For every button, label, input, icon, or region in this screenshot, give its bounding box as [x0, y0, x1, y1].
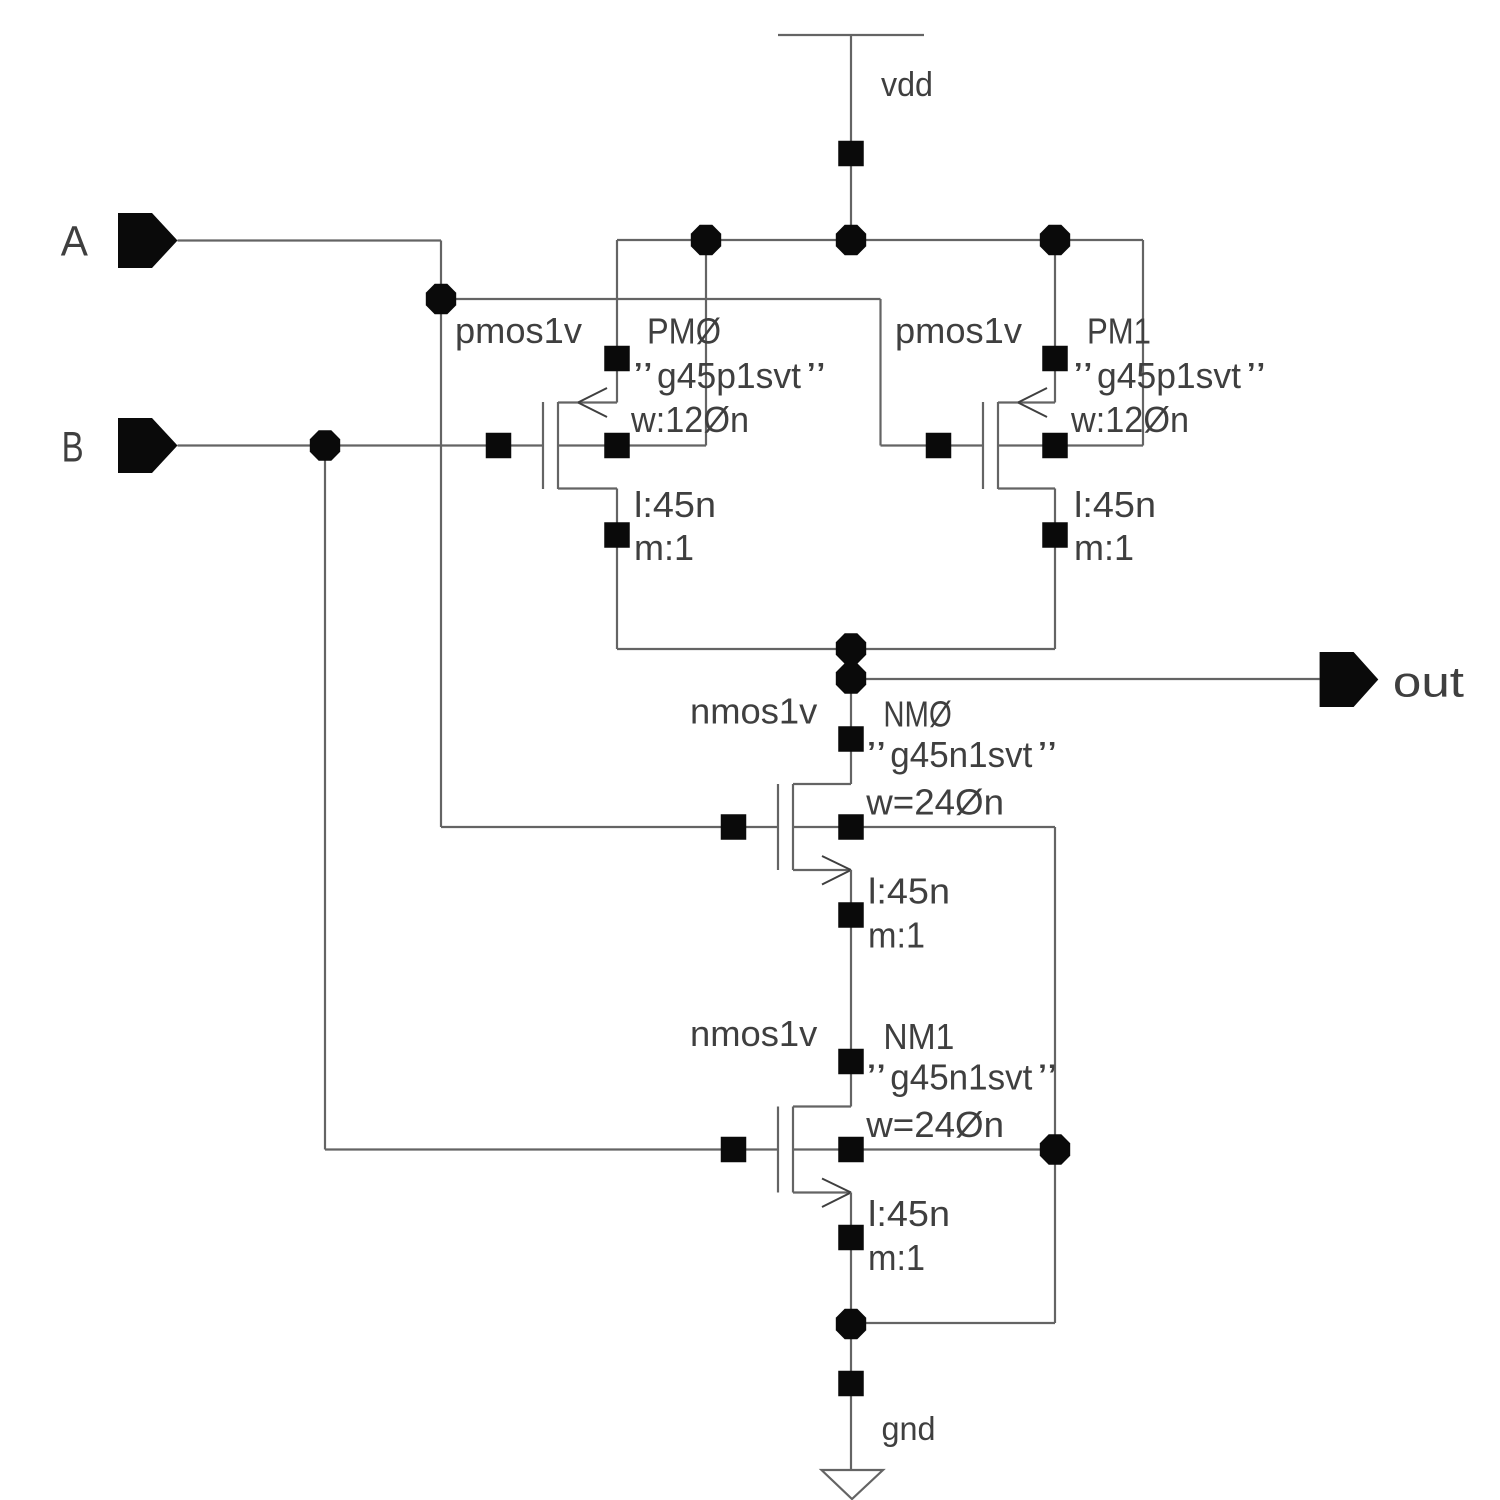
pmos transistor PM1 symbol [983, 402, 1055, 489]
wire bulk return bottom [851, 1322, 1055, 1324]
svg-text:’’: ’’ [806, 355, 826, 396]
PM1 bulk pin square [1042, 433, 1068, 459]
input port A [118, 213, 178, 268]
NM1 source pin square [838, 1225, 864, 1251]
PM0 instance name label [647, 311, 721, 352]
svg-text:m:1: m:1 [868, 915, 925, 956]
nmos transistor NM1 symbol [778, 1107, 851, 1193]
NM1 drain pin square [838, 1049, 864, 1075]
svg-text:l:45n: l:45n [634, 484, 716, 525]
svg-text:l:45n: l:45n [868, 1193, 950, 1234]
wire NM1 source down to gnd node [850, 1193, 852, 1325]
PM0 drain pin square [604, 522, 630, 548]
PM0 multiplier label [634, 527, 694, 568]
svg-text:m:1: m:1 [1074, 527, 1134, 568]
NM1 bulk pin square [838, 1137, 864, 1163]
NM0 source arrow [822, 856, 851, 885]
PM0 length label [634, 484, 716, 525]
PM1 cell label g45p1svt [1073, 355, 1266, 396]
svg-text:vdd: vdd [881, 66, 933, 104]
svg-text:’’: ’’ [866, 734, 886, 775]
PM1 width label [1070, 399, 1189, 440]
NM0 model label nmos1v [690, 691, 817, 732]
PM1 multiplier label [1074, 527, 1134, 568]
input port B [118, 418, 178, 473]
svg-text:PMØ: PMØ [647, 311, 721, 352]
PM1 source pin square [1042, 346, 1068, 372]
wire gnd stem [850, 1324, 852, 1470]
PM1 drain wire down [1054, 489, 1056, 650]
NM0 gate pin square [721, 814, 747, 840]
junction dot out wire [836, 663, 866, 693]
PM1 model label pmos1v [895, 310, 1022, 351]
NM0 length label [868, 871, 950, 912]
port label A [61, 218, 88, 266]
PM0 source wire to vdd rail [616, 240, 618, 403]
PM1 length label [1074, 484, 1156, 525]
svg-text:g45n1svt: g45n1svt [890, 734, 1032, 775]
svg-text:’’: ’’ [866, 1057, 886, 1098]
junction dot drain rail to output [836, 633, 866, 663]
NM0 instance name label [883, 694, 951, 735]
pmos transistor PM0 symbol [543, 402, 617, 489]
svg-text:g45p1svt: g45p1svt [1097, 355, 1241, 396]
wire net A into NM0 gate [441, 826, 778, 828]
NM0 source pin square [838, 902, 864, 928]
output port out [1320, 652, 1379, 707]
wire NM0 source to NM1 drain [850, 870, 852, 1107]
svg-text:w:12Øn: w:12Øn [1070, 399, 1189, 440]
wire output stem [850, 649, 852, 784]
svg-text:’’: ’’ [1246, 355, 1266, 396]
svg-text:pmos1v: pmos1v [455, 310, 582, 351]
NM1 source arrow [822, 1179, 851, 1208]
PM1 bulk wire to vdd [1055, 240, 1143, 446]
PM0 bulk wire to vdd [617, 240, 706, 446]
NM1 width label [865, 1104, 1004, 1145]
junction dot net A [426, 284, 456, 314]
junction dot PM1 source at rail [1040, 225, 1070, 255]
PM0 source arrow [578, 388, 607, 417]
svg-text:PM1: PM1 [1087, 311, 1151, 352]
PM0 bulk pin square [604, 433, 630, 459]
svg-text:m:1: m:1 [868, 1237, 925, 1278]
svg-text:A: A [61, 218, 88, 266]
junction dot vdd stem at rail [836, 225, 866, 255]
nmos transistor NM0 symbol [778, 784, 851, 870]
svg-text:w:12Øn: w:12Øn [630, 399, 749, 440]
svg-text:g45n1svt: g45n1svt [890, 1057, 1032, 1098]
wire net A from port A [178, 241, 442, 828]
svg-text:nmos1v: nmos1v [690, 1013, 817, 1054]
vdd supply symbol [778, 35, 924, 240]
NM0 width label [865, 782, 1004, 823]
gnd net label [882, 1410, 936, 1447]
NM0 bulk pin square [838, 814, 864, 840]
PM0 width label [630, 399, 749, 440]
vdd rail wire [617, 239, 1143, 241]
pin square on gnd stem [838, 1371, 864, 1397]
PM1 source arrow [1018, 388, 1047, 417]
svg-text:w=24Øn: w=24Øn [865, 782, 1004, 823]
port label out [1393, 658, 1464, 706]
junction dot net B [310, 430, 340, 460]
NM0 multiplier label [868, 915, 925, 956]
PM1 drain pin square [1042, 522, 1068, 548]
wire net B from port B into PM0 gate [178, 444, 544, 446]
junction dot gnd node [836, 1309, 866, 1339]
wire net A branch to PM1 gate [441, 299, 983, 446]
PM1 source wire to vdd rail [1054, 240, 1056, 403]
PM1 gate pin square [926, 433, 952, 459]
pin square on vdd stem [838, 141, 864, 167]
NM1 multiplier label [868, 1237, 925, 1278]
svg-text:’’: ’’ [1037, 1057, 1057, 1098]
PM0 gate pin square [486, 433, 512, 459]
PM0 drain wire down [616, 489, 618, 650]
PM1 instance name label [1087, 311, 1151, 352]
junction dot PM0 bulk at vdd rail [691, 225, 721, 255]
svg-text:l:45n: l:45n [868, 871, 950, 912]
wire to out port [851, 678, 1320, 680]
ground symbol [822, 1470, 884, 1499]
svg-text:B: B [62, 424, 84, 472]
NM1 bulk wire [851, 1148, 1055, 1150]
svg-text:w=24Øn: w=24Øn [865, 1104, 1004, 1145]
NM1 instance name label [883, 1016, 954, 1057]
NM1 gate pin square [721, 1137, 747, 1163]
NM0 cell label g45n1svt [866, 734, 1057, 775]
svg-text:nmos1v: nmos1v [690, 691, 817, 732]
PM0 cell label g45p1svt [633, 355, 826, 396]
svg-text:’’: ’’ [1073, 355, 1093, 396]
vdd net label [881, 66, 933, 104]
wire net B down to NM1 gate [325, 446, 778, 1150]
svg-text:NM1: NM1 [883, 1016, 954, 1057]
junction dot NM1 bulk [1040, 1134, 1070, 1164]
svg-text:gnd: gnd [882, 1410, 936, 1447]
port label B [62, 424, 84, 472]
PM0 model label pmos1v [455, 310, 582, 351]
svg-text:’’: ’’ [633, 355, 653, 396]
svg-text:pmos1v: pmos1v [895, 310, 1022, 351]
NM0 drain pin square [838, 726, 864, 752]
svg-text:’’: ’’ [1037, 734, 1057, 775]
svg-text:NMØ: NMØ [883, 694, 951, 735]
NM0 bulk wire down to gnd net [851, 827, 1055, 1323]
NM1 cell label g45n1svt [866, 1057, 1057, 1098]
svg-text:l:45n: l:45n [1074, 484, 1156, 525]
svg-text:g45p1svt: g45p1svt [657, 355, 801, 396]
NM1 model label nmos1v [690, 1013, 817, 1054]
svg-text:m:1: m:1 [634, 527, 694, 568]
PM0 source pin square [604, 346, 630, 372]
NM1 length label [868, 1193, 950, 1234]
wire pullup drain rail [617, 648, 1055, 650]
svg-text:out: out [1393, 658, 1464, 706]
